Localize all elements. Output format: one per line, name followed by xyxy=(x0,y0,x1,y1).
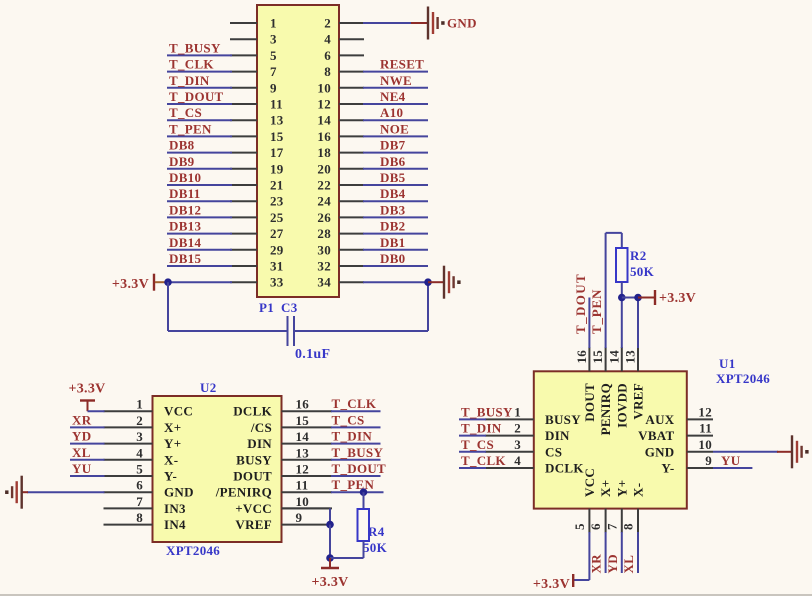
U2 pin 7 (IN3) xyxy=(104,494,187,516)
svg-text:DB3: DB3 xyxy=(380,202,406,217)
capacitor C3 xyxy=(288,316,295,346)
svg-text:23: 23 xyxy=(270,194,284,209)
svg-text:NWE: NWE xyxy=(380,73,412,88)
svg-text:T_CS: T_CS xyxy=(332,412,365,427)
svg-text:T_DOUT: T_DOUT xyxy=(169,89,224,104)
svg-text:Y+: Y+ xyxy=(164,436,181,451)
svg-text:+VCC: +VCC xyxy=(235,501,272,516)
svg-text:10: 10 xyxy=(317,80,331,95)
U2 pin 3 (Y+) xyxy=(104,429,182,451)
wire pin34 to ground xyxy=(428,281,444,283)
P1 pin 11 xyxy=(167,89,283,112)
wire / net label YU (U2 pin 5) xyxy=(70,461,105,476)
svg-text:DB5: DB5 xyxy=(380,170,406,185)
P1 pin 9 xyxy=(167,73,277,96)
wire / net label T_BUSY xyxy=(459,404,513,419)
svg-text:X-: X- xyxy=(164,452,178,467)
svg-text:29: 29 xyxy=(270,242,284,257)
wire / net label YD (U2 pin 3) xyxy=(70,429,105,444)
P1 pin 28 xyxy=(317,219,428,242)
svg-text:8: 8 xyxy=(324,64,331,79)
wire / net label XL (U1 pin 8) xyxy=(621,532,638,574)
svg-text:22: 22 xyxy=(317,178,331,193)
svg-text:VCC: VCC xyxy=(164,404,193,419)
svg-text:19: 19 xyxy=(270,161,284,176)
U1 pin 13 (VREF) xyxy=(623,347,646,420)
svg-text:13: 13 xyxy=(296,445,310,460)
U1 pin 8 (X-) xyxy=(621,483,646,533)
svg-text:17: 17 xyxy=(270,145,284,160)
svg-text:10: 10 xyxy=(698,437,712,452)
svg-text:U2: U2 xyxy=(200,380,217,395)
svg-text:R2: R2 xyxy=(630,248,647,263)
P1 pin 24 xyxy=(317,186,428,209)
svg-text:27: 27 xyxy=(270,226,284,241)
svg-text:T_CS: T_CS xyxy=(461,437,494,452)
wire / net label XL (U2 pin 4) xyxy=(70,445,105,460)
U2 pin 2 (X+) xyxy=(104,413,182,435)
svg-text:1: 1 xyxy=(514,404,521,419)
wire T_PEN junction to R4 xyxy=(363,492,365,509)
P1 pin 22 xyxy=(317,170,428,193)
svg-text:DB0: DB0 xyxy=(380,251,405,266)
wire down-left of C3 xyxy=(168,282,288,331)
svg-text:DB13: DB13 xyxy=(169,219,201,234)
svg-text:/PENIRQ: /PENIRQ xyxy=(215,485,272,500)
svg-text:+3.3V: +3.3V xyxy=(533,577,570,592)
P1 pin 23 xyxy=(167,186,284,209)
wire / net label T_DIN xyxy=(331,429,381,444)
svg-text:5: 5 xyxy=(270,48,277,63)
power +3.3V (U2 pin1) xyxy=(68,382,105,412)
U2 pin 5 (Y-) xyxy=(104,462,178,484)
wire / net label T_CLK xyxy=(459,453,506,468)
svg-text:+3.3V: +3.3V xyxy=(659,291,696,306)
U2 pin 4 (X-) xyxy=(104,445,179,467)
U1 pin 12 (AUX) xyxy=(645,404,713,427)
svg-text:YU: YU xyxy=(721,453,741,468)
svg-text:+3.3V: +3.3V xyxy=(68,382,105,397)
P1 pin 13 xyxy=(167,105,284,128)
svg-text:6: 6 xyxy=(588,523,603,530)
svg-text:50K: 50K xyxy=(363,540,388,555)
P1 pin 30 xyxy=(317,235,428,257)
svg-text:P1: P1 xyxy=(259,300,274,315)
U2 pin 14 (DIN) xyxy=(247,429,332,451)
svg-text:DB2: DB2 xyxy=(380,219,405,234)
R4 designator xyxy=(368,524,385,539)
C3 designator xyxy=(281,300,298,315)
svg-text:14: 14 xyxy=(317,113,331,128)
svg-text:YD: YD xyxy=(605,554,620,573)
U1 pin 16 (DOUT) xyxy=(574,347,597,422)
R2 value 50K xyxy=(630,264,655,279)
svg-text:IOVDD: IOVDD xyxy=(614,383,629,428)
svg-text:5: 5 xyxy=(136,462,143,477)
ground symbol (U2 pin6) xyxy=(5,476,22,509)
wire node to pin13 xyxy=(622,298,638,349)
svg-text:DB7: DB7 xyxy=(380,138,406,153)
U1 part name XPT2046 xyxy=(716,371,770,386)
svg-text:14: 14 xyxy=(296,429,310,444)
svg-text:DB6: DB6 xyxy=(380,154,406,169)
svg-text:6: 6 xyxy=(136,478,143,493)
U2 pin 16 (DCLK) xyxy=(233,397,332,419)
wire U1 pin14 up xyxy=(621,298,623,349)
svg-text:DB15: DB15 xyxy=(169,251,201,266)
P1 pin 14 xyxy=(317,105,428,128)
svg-text:11: 11 xyxy=(270,97,283,112)
svg-text:VREF: VREF xyxy=(631,383,646,420)
svg-text:50K: 50K xyxy=(630,264,655,279)
U2 pin 12 (DOUT) xyxy=(233,462,332,484)
P1 pin 31 xyxy=(167,251,284,274)
U1 pin 11 (VBAT) xyxy=(638,421,713,444)
svg-text:31: 31 xyxy=(270,259,284,274)
svg-text:T_DIN: T_DIN xyxy=(461,421,502,436)
connector P1 body xyxy=(257,5,339,297)
junction at +3.3V (U2 bottom) xyxy=(326,554,334,562)
svg-text:XR: XR xyxy=(589,554,604,574)
svg-text:T_PEN: T_PEN xyxy=(169,121,212,136)
svg-text:VBAT: VBAT xyxy=(638,428,674,443)
U1 pin 10 (GND) xyxy=(645,437,713,460)
svg-text:DB4: DB4 xyxy=(380,186,406,201)
wire / net label T_CS xyxy=(331,412,381,427)
U1 pin 2 (DIN) xyxy=(485,421,570,444)
svg-text:20: 20 xyxy=(317,161,331,176)
svg-text:T_BUSY: T_BUSY xyxy=(169,40,221,55)
svg-text:X+: X+ xyxy=(598,480,613,497)
P1 pin 6 xyxy=(324,48,364,63)
U2 pin 11 (/PENIRQ) xyxy=(215,478,332,500)
U1 pin 7 (Y+) xyxy=(604,480,629,533)
P1 pin 32 xyxy=(317,251,428,274)
C3 value 0.1uF xyxy=(295,347,330,362)
svg-text:0.1uF: 0.1uF xyxy=(295,347,330,362)
wire junction down xyxy=(329,525,331,558)
svg-text:3: 3 xyxy=(270,32,277,47)
U1 pin 3 (CS) xyxy=(485,437,562,460)
svg-text:1: 1 xyxy=(270,16,277,31)
svg-text:16: 16 xyxy=(574,350,589,364)
U2 pin 10 (+VCC) xyxy=(235,494,332,516)
IC U2 body xyxy=(153,396,282,542)
svg-text:5: 5 xyxy=(572,523,587,530)
svg-text:16: 16 xyxy=(296,397,310,412)
P1 pin 26 xyxy=(317,202,428,225)
svg-text:30: 30 xyxy=(317,242,331,257)
U2 designator xyxy=(200,380,217,395)
U1 pin 6 (X+) xyxy=(588,480,613,533)
svg-text:A10: A10 xyxy=(380,105,403,120)
svg-text:DB9: DB9 xyxy=(169,154,195,169)
svg-text:7: 7 xyxy=(270,64,277,79)
ground symbol GND (top right) xyxy=(428,7,477,40)
junction R2/pin14 xyxy=(618,294,626,302)
svg-text:21: 21 xyxy=(270,178,284,193)
svg-text:XPT2046: XPT2046 xyxy=(166,543,220,558)
svg-text:DOUT: DOUT xyxy=(233,469,272,484)
svg-text:28: 28 xyxy=(317,226,331,241)
wire U1 pin5 to +3.3V xyxy=(573,532,589,580)
P1 pin 18 xyxy=(317,138,428,161)
resistor R2 xyxy=(616,233,628,298)
wire / net label T_CS xyxy=(459,437,494,452)
svg-text:VREF: VREF xyxy=(235,517,272,532)
svg-text:4: 4 xyxy=(136,445,143,460)
svg-text:8: 8 xyxy=(621,523,636,530)
P1 pin 25 xyxy=(167,202,284,225)
P1 pin 16 xyxy=(317,121,428,144)
svg-text:32: 32 xyxy=(317,259,331,274)
ground symbol (P1 bottom right) xyxy=(444,266,461,299)
U1 designator xyxy=(719,356,736,371)
P1 pin 34 xyxy=(317,275,428,290)
P1 pin 2 xyxy=(324,16,364,31)
svg-text:9: 9 xyxy=(296,510,303,525)
svg-text:NOE: NOE xyxy=(380,121,409,136)
svg-text:+3.3V: +3.3V xyxy=(112,277,149,292)
svg-text:T_DOUT: T_DOUT xyxy=(332,461,387,476)
svg-text:YU: YU xyxy=(72,461,92,476)
svg-text:3: 3 xyxy=(136,429,143,444)
P1 pin 21 xyxy=(167,170,284,193)
svg-text:DB11: DB11 xyxy=(169,186,201,201)
svg-text:T_BUSY: T_BUSY xyxy=(461,404,513,419)
svg-text:RESET: RESET xyxy=(380,57,424,72)
U2 pin 8 (IN4) xyxy=(104,510,187,532)
svg-text:DB14: DB14 xyxy=(169,235,201,250)
wire / net label T_CLK xyxy=(331,396,381,411)
svg-text:7: 7 xyxy=(136,494,143,509)
svg-text:34: 34 xyxy=(317,275,331,290)
svg-text:YD: YD xyxy=(72,429,91,444)
svg-text:3: 3 xyxy=(514,437,521,452)
U1 pin 4 (DCLK) xyxy=(485,453,584,476)
svg-text:DIN: DIN xyxy=(247,436,272,451)
svg-text:4: 4 xyxy=(324,32,331,47)
svg-text:DB12: DB12 xyxy=(169,202,201,217)
wire / net label T_PEN (U1 pin15) xyxy=(589,233,622,348)
P1 pin 33 xyxy=(230,275,284,290)
power +3.3V (U1 top) xyxy=(638,290,696,306)
U2 pin 9 (VREF) xyxy=(235,510,332,532)
svg-text:T_CLK: T_CLK xyxy=(461,453,506,468)
P1 pin 4 xyxy=(324,32,364,47)
svg-text:16: 16 xyxy=(317,129,331,144)
svg-text:PENIRQ: PENIRQ xyxy=(598,383,613,435)
svg-text:T_CLK: T_CLK xyxy=(169,57,214,72)
svg-text:IN4: IN4 xyxy=(164,517,186,532)
P1 pin 27 xyxy=(167,219,284,242)
P1 pin 12 xyxy=(317,89,428,112)
svg-text:9: 9 xyxy=(705,453,712,468)
svg-text:XL: XL xyxy=(621,555,636,574)
wire U2 pin10 down xyxy=(282,508,331,524)
junction T_PEN/R4 xyxy=(360,488,368,496)
svg-text:1: 1 xyxy=(136,397,143,412)
svg-text:DCLK: DCLK xyxy=(545,461,584,476)
svg-text:2: 2 xyxy=(514,421,521,436)
svg-text:13: 13 xyxy=(623,350,638,364)
sheet edge line xyxy=(0,594,812,596)
resistor R4 xyxy=(358,509,370,541)
svg-text:CS: CS xyxy=(545,444,562,459)
power +3.3V (U1 bottom) xyxy=(533,574,573,592)
U1 pin 14 (IOVDD) xyxy=(606,347,629,428)
P1 pin 8 xyxy=(324,57,428,80)
svg-text:14: 14 xyxy=(606,350,621,364)
svg-text:XR: XR xyxy=(72,412,92,427)
wire / net label T_DIN xyxy=(459,421,502,436)
svg-text:T_BUSY: T_BUSY xyxy=(332,445,384,460)
svg-text:DOUT: DOUT xyxy=(582,383,597,422)
svg-text:25: 25 xyxy=(270,210,284,225)
P1 pin 17 xyxy=(167,138,284,161)
svg-text:11: 11 xyxy=(699,421,712,436)
svg-text:15: 15 xyxy=(270,129,284,144)
P1 pin 7 xyxy=(167,57,277,80)
svg-text:15: 15 xyxy=(590,350,605,364)
svg-text:33: 33 xyxy=(270,275,284,290)
wire / net label T_PEN xyxy=(331,477,384,492)
svg-text:X+: X+ xyxy=(164,420,181,435)
U2 part name XPT2046 xyxy=(166,543,220,558)
R2 designator xyxy=(630,248,647,263)
svg-text:NE4: NE4 xyxy=(380,89,406,104)
svg-text:DIN: DIN xyxy=(545,428,570,443)
svg-text:XPT2046: XPT2046 xyxy=(716,371,770,386)
svg-text:Y+: Y+ xyxy=(614,480,629,497)
wire C3 right to ground xyxy=(294,282,428,331)
wire U1 pin10 to ground xyxy=(713,451,792,453)
U2 pin 13 (BUSY) xyxy=(236,445,332,467)
P1 pin 29 xyxy=(167,235,284,257)
svg-text:T_DIN: T_DIN xyxy=(332,429,373,444)
svg-text:Y-: Y- xyxy=(164,469,177,484)
svg-text:VCC: VCC xyxy=(582,468,597,497)
svg-text:T_PEN: T_PEN xyxy=(332,477,375,492)
R4 value 50K xyxy=(363,540,388,555)
svg-text:+3.3V: +3.3V xyxy=(311,575,348,590)
svg-text:2: 2 xyxy=(324,16,331,31)
svg-text:C3: C3 xyxy=(281,300,298,315)
P1 pin 10 xyxy=(317,73,428,96)
svg-text:T_DOUT: T_DOUT xyxy=(573,273,588,334)
svg-text:U1: U1 xyxy=(719,356,736,371)
svg-text:18: 18 xyxy=(317,145,331,160)
IC U1 body xyxy=(534,371,687,508)
wire GND to U2 pin6 xyxy=(22,491,105,493)
wire / net label XR (U1 pin 6) xyxy=(589,532,606,574)
U1 pin 15 (PENIRQ) xyxy=(590,347,613,435)
P1 designator xyxy=(259,300,274,315)
U1 pin 9 (Y-) xyxy=(661,453,713,476)
U1 pin 1 (BUSY) xyxy=(485,404,581,427)
svg-text:T_CLK: T_CLK xyxy=(332,396,377,411)
svg-text:11: 11 xyxy=(296,478,309,493)
wire / net label YD (U1 pin 7) xyxy=(605,532,622,574)
wire / net label T_DOUT xyxy=(331,461,386,476)
svg-text:T_DIN: T_DIN xyxy=(169,73,210,88)
wire pin2 to GND xyxy=(363,22,427,24)
U1 pin 5 (VCC) xyxy=(572,468,597,533)
P1 pin 19 xyxy=(167,154,284,177)
junction U2 pin9/pin10 xyxy=(326,521,334,529)
U2 pin 1 (VCC) xyxy=(104,397,194,419)
junction (168,282) xyxy=(164,278,172,286)
svg-text:T_PEN: T_PEN xyxy=(589,289,604,334)
svg-text:6: 6 xyxy=(324,48,331,63)
P1 pin 1 xyxy=(230,16,277,31)
wire / net label T_DOUT (U1 pin16) xyxy=(573,273,589,348)
power +3.3V (U2 bottom) xyxy=(311,558,348,590)
svg-text:DB1: DB1 xyxy=(380,235,405,250)
svg-text:13: 13 xyxy=(270,113,284,128)
svg-text:/CS: /CS xyxy=(250,420,272,435)
wire +3.3V to pin33 xyxy=(167,281,232,283)
svg-text:7: 7 xyxy=(604,523,619,530)
svg-text:8: 8 xyxy=(136,510,143,525)
U2 pin 15 (/CS) xyxy=(250,413,332,435)
power +3.3V (P1 pin33) xyxy=(112,274,168,293)
svg-text:T_CS: T_CS xyxy=(169,105,202,120)
svg-text:X-: X- xyxy=(631,483,646,497)
svg-text:12: 12 xyxy=(296,462,310,477)
svg-text:12: 12 xyxy=(698,404,712,419)
svg-text:DB10: DB10 xyxy=(169,170,201,185)
svg-text:9: 9 xyxy=(270,80,277,95)
svg-text:GND: GND xyxy=(645,444,675,459)
svg-text:GND: GND xyxy=(164,485,194,500)
junction (428,282) xyxy=(424,278,432,286)
svg-text:15: 15 xyxy=(296,413,310,428)
svg-text:4: 4 xyxy=(514,453,521,468)
svg-text:24: 24 xyxy=(317,194,331,209)
U2 pin 6 (GND) xyxy=(104,478,194,500)
P1 pin 5 xyxy=(167,40,277,63)
wire / net label T_BUSY xyxy=(331,445,383,460)
svg-text:DCLK: DCLK xyxy=(233,404,272,419)
wire / net label XR (U2 pin 2) xyxy=(70,412,105,427)
svg-text:DB8: DB8 xyxy=(169,138,195,153)
wire junction to R4 bottom xyxy=(330,541,364,558)
svg-text:IN3: IN3 xyxy=(164,501,186,516)
svg-text:GND: GND xyxy=(447,16,477,31)
svg-text:R4: R4 xyxy=(368,524,385,539)
ground symbol (U1 right) xyxy=(792,435,809,468)
wire +3.3V to U2 pin1 xyxy=(88,410,105,412)
junction pin13 xyxy=(634,294,642,302)
svg-text:BUSY: BUSY xyxy=(545,412,581,427)
svg-text:Y-: Y- xyxy=(661,461,674,476)
P1 pin 3 xyxy=(230,32,277,47)
P1 pin 20 xyxy=(317,154,428,177)
svg-text:2: 2 xyxy=(136,413,143,428)
wire / net label YU (U1 pin9) xyxy=(713,453,752,468)
svg-text:12: 12 xyxy=(317,97,331,112)
svg-text:BUSY: BUSY xyxy=(236,452,272,467)
P1 pin 15 xyxy=(167,121,284,144)
svg-text:26: 26 xyxy=(317,210,331,225)
svg-text:10: 10 xyxy=(296,494,310,509)
svg-text:AUX: AUX xyxy=(645,412,674,427)
svg-text:XL: XL xyxy=(72,445,91,460)
